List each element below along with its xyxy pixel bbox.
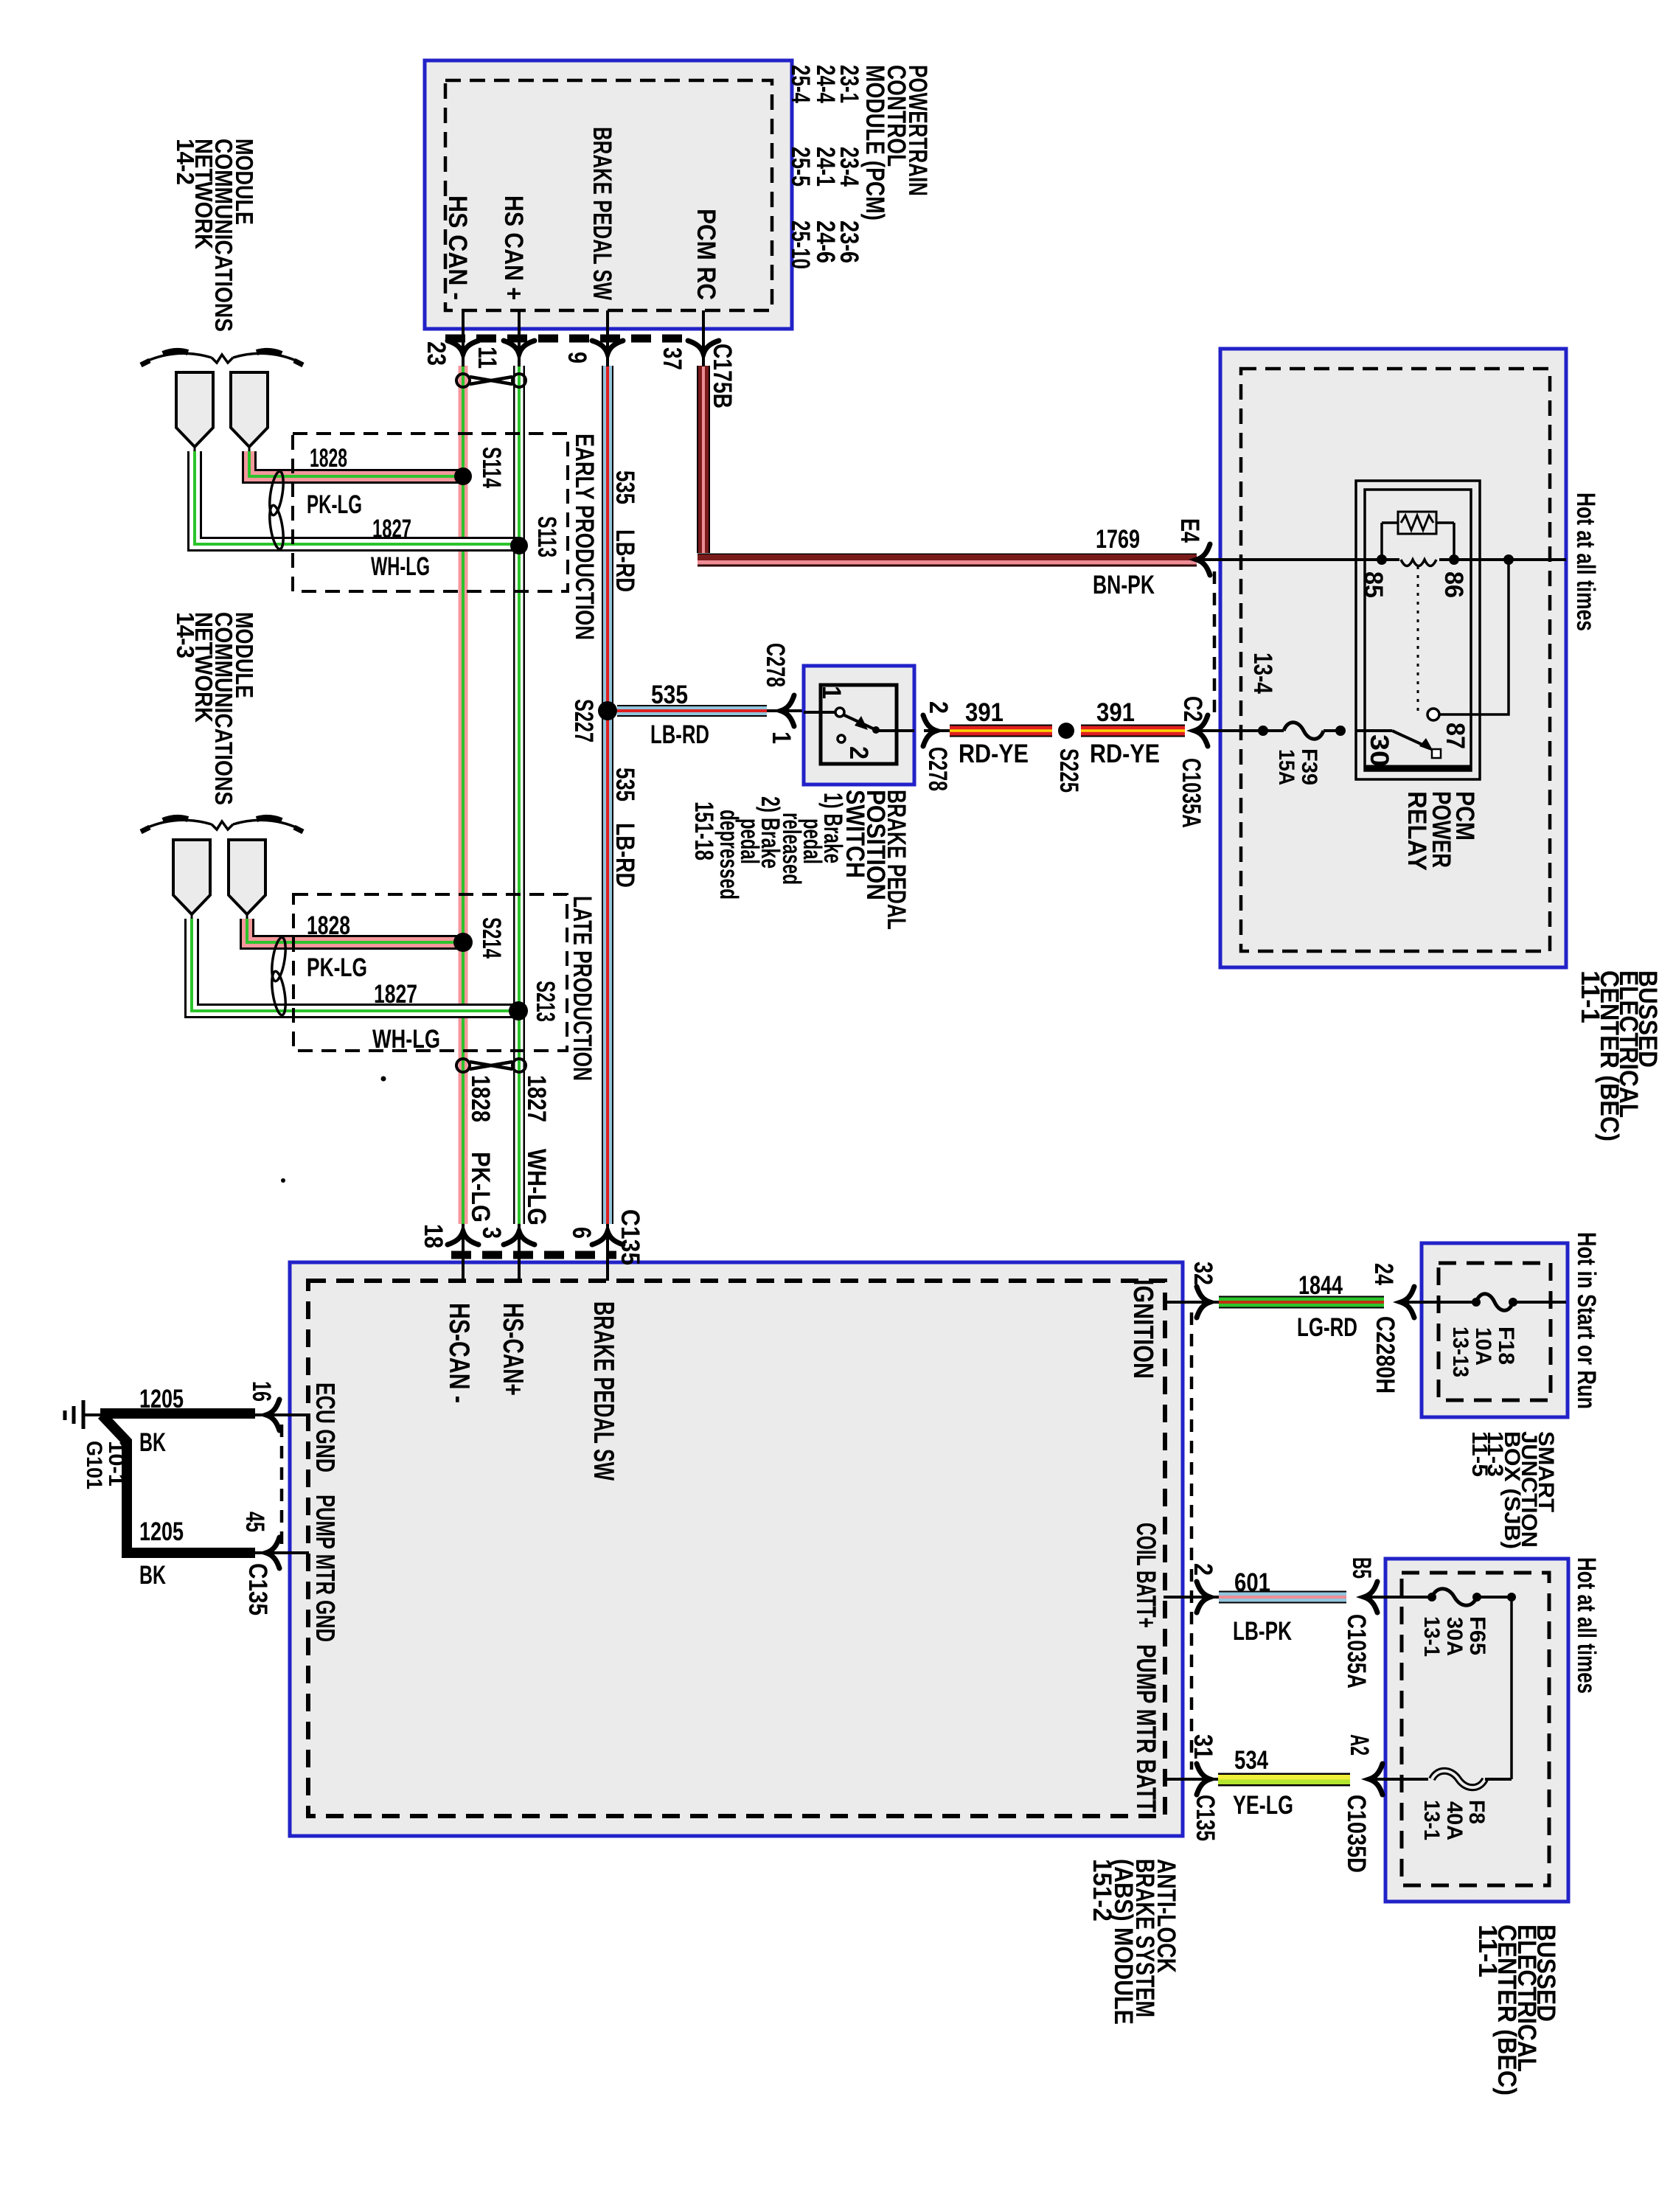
wire 535 LB-RD branch to switch bbox=[617, 681, 767, 749]
wire label 1769 BN-PK bbox=[1093, 525, 1155, 599]
labels S114 S113 EARLY PRODUCTION bbox=[477, 434, 599, 640]
label 13-4 bbox=[1248, 653, 1277, 694]
svg-text:F65: F65 bbox=[1465, 1616, 1489, 1655]
ABS pin 31 (PUMP MTR BATT) bbox=[1164, 1734, 1220, 1841]
svg-text:30A: 30A bbox=[1442, 1617, 1467, 1656]
connector C2280H arrow bbox=[1369, 1263, 1476, 1394]
svg-text:86: 86 bbox=[1439, 571, 1468, 598]
svg-text:F39: F39 bbox=[1297, 748, 1321, 785]
svg-text:Hot at all times: Hot at all times bbox=[1571, 493, 1600, 631]
svg-text:COIL BATT+: COIL BATT+ bbox=[1131, 1523, 1161, 1628]
module connector symbol (early, left) bbox=[176, 372, 213, 453]
svg-text:15A: 15A bbox=[1274, 749, 1298, 785]
wire labels 1827 WH-LG (early) bbox=[371, 515, 430, 581]
wire 391 RD-YE segment A bbox=[950, 698, 1052, 768]
svg-text:2: 2 bbox=[844, 746, 873, 759]
svg-text:PK-LG: PK-LG bbox=[307, 490, 362, 519]
svg-text:37: 37 bbox=[658, 347, 686, 370]
SJB box bbox=[1422, 1243, 1568, 1417]
twisted pair symbol (late) bbox=[269, 936, 288, 1016]
svg-text:WH-LG: WH-LG bbox=[372, 1025, 440, 1054]
connector B5 arrow bbox=[1342, 1557, 1432, 1688]
svg-text:S227: S227 bbox=[569, 699, 598, 742]
ABS pin 32 (IGNITION) bbox=[1127, 1262, 1219, 1379]
wire 1769 BN-PK vertical from PCM pin 37 bbox=[697, 366, 710, 553]
svg-text:RELAY: RELAY bbox=[1402, 791, 1431, 871]
svg-text:Hot at all times: Hot at all times bbox=[1572, 1557, 1601, 1694]
ABS right pins connector dashed link bbox=[1190, 1312, 1194, 1770]
svg-text:S213: S213 bbox=[531, 981, 560, 1022]
twisted pair symbol (early) bbox=[267, 470, 285, 550]
svg-text:BK: BK bbox=[139, 1561, 166, 1590]
stray mark 1 bbox=[381, 1077, 386, 1082]
fuse F18 10A bbox=[1448, 1294, 1566, 1377]
wire 1205 BK to pin 16 bbox=[100, 1385, 255, 1457]
wire labels 1827 WH-LG (late) bbox=[372, 980, 440, 1054]
label BUSSED ELECTRICAL CENTER (BEC) 11-1 (bottom) bbox=[1473, 1924, 1560, 2096]
svg-text:F18: F18 bbox=[1494, 1326, 1518, 1365]
wire 1827 WH-LG horizontal (late) to S213 bbox=[192, 919, 518, 1011]
svg-text:45: 45 bbox=[240, 1512, 269, 1532]
svg-text:11-1: 11-1 bbox=[1473, 1924, 1502, 1978]
svg-text:C135: C135 bbox=[1191, 1795, 1220, 1841]
bus arcs symbol (network 14-3) bbox=[141, 818, 303, 832]
label Hot at all times (bottom) bbox=[1572, 1557, 1601, 1694]
ABS pin 16 bbox=[247, 1381, 309, 1430]
svg-text:F8: F8 bbox=[1464, 1800, 1489, 1824]
BEC (bottom) box bbox=[1385, 1559, 1568, 1902]
label MODULE COMMUNICATIONS NETWORK 14-2 bbox=[172, 139, 258, 332]
svg-text:WH-LG: WH-LG bbox=[371, 552, 430, 581]
relay armature dotted link bbox=[1417, 566, 1419, 712]
svg-text:C1035A: C1035A bbox=[1177, 758, 1206, 828]
wire labels 1828 PK-LG / 1827 WH-LG (to ABS) bbox=[466, 1075, 551, 1225]
wire 1827 WH-LG vertical (HS CAN +) bbox=[513, 366, 525, 1224]
wire 1828 PK-LG horizontal (early) to S114 bbox=[249, 451, 463, 476]
svg-text:87: 87 bbox=[1441, 723, 1470, 749]
connector C2 arrow bbox=[1177, 696, 1263, 828]
label BUSSED ELECTRICAL CENTER (BEC) 11-1 (top) bbox=[1576, 970, 1659, 1141]
svg-text:C1035D: C1035D bbox=[1342, 1795, 1371, 1873]
svg-text:LB-RD: LB-RD bbox=[611, 823, 639, 888]
svg-text:B5: B5 bbox=[1347, 1557, 1376, 1579]
ABS internal labels ECU GND / PUMP MTR GND bbox=[310, 1382, 341, 1642]
ground G101 symbol bbox=[65, 1400, 128, 1489]
svg-text:C175B: C175B bbox=[708, 344, 737, 408]
svg-text:1827: 1827 bbox=[374, 980, 417, 1009]
hot at all times feed wire bbox=[1220, 558, 1566, 561]
svg-text:E4: E4 bbox=[1175, 518, 1204, 543]
PCM pin 23 bbox=[422, 310, 479, 366]
PCM pin 9 bbox=[563, 310, 623, 366]
svg-text:1828: 1828 bbox=[466, 1075, 495, 1122]
svg-text:13-1: 13-1 bbox=[1419, 1800, 1444, 1840]
svg-text:25-10: 25-10 bbox=[786, 220, 815, 269]
wire 1828 PK-LG vertical (HS CAN -) bbox=[459, 366, 468, 1224]
ABS pin 3 bbox=[477, 1224, 535, 1281]
dashed box LATE PRODUCTION bbox=[293, 894, 567, 1051]
splice S227 bbox=[569, 699, 617, 742]
svg-text:1844: 1844 bbox=[1298, 1271, 1343, 1300]
svg-text:C278: C278 bbox=[923, 747, 952, 791]
svg-text:HS-CAN -: HS-CAN - bbox=[443, 1303, 475, 1403]
svg-text:14-2: 14-2 bbox=[172, 139, 199, 185]
svg-text:S113: S113 bbox=[532, 516, 561, 557]
svg-text:PK-LG: PK-LG bbox=[466, 1152, 495, 1222]
svg-text:11-5: 11-5 bbox=[1467, 1431, 1492, 1477]
svg-text:C1035A: C1035A bbox=[1342, 1614, 1371, 1688]
ABS pin 45 bbox=[240, 1512, 309, 1615]
svg-text:LB-RD: LB-RD bbox=[611, 529, 639, 592]
svg-text:85: 85 bbox=[1359, 571, 1388, 598]
svg-text:IGNITION: IGNITION bbox=[1127, 1279, 1158, 1379]
svg-text:601: 601 bbox=[1234, 1568, 1270, 1597]
wire 535 LB-RD vertical (BRAKE PEDAL SW) bbox=[602, 366, 613, 1224]
splice S114 bbox=[454, 467, 472, 485]
svg-text:25-5: 25-5 bbox=[786, 147, 815, 187]
svg-text:PK-LG: PK-LG bbox=[307, 953, 367, 982]
svg-text:2: 2 bbox=[1189, 1563, 1217, 1576]
svg-text:HS-CAN+: HS-CAN+ bbox=[497, 1303, 529, 1396]
wire 601 LB-PK bbox=[1219, 1568, 1346, 1646]
C278 pin 1 arrow bbox=[761, 643, 804, 744]
svg-text:18: 18 bbox=[419, 1224, 448, 1248]
svg-text:535: 535 bbox=[611, 768, 639, 801]
module connector symbol (early, right) bbox=[231, 372, 268, 453]
C278 pin 2 arrow bbox=[923, 701, 953, 791]
svg-text:1827: 1827 bbox=[522, 1075, 551, 1122]
svg-text:RD-YE: RD-YE bbox=[959, 740, 1029, 768]
svg-text:535: 535 bbox=[611, 470, 639, 504]
module connector symbol (late, left) bbox=[173, 840, 210, 920]
wire 1827 WH-LG horizontal (early) to S113 bbox=[195, 451, 519, 544]
svg-text:11-1: 11-1 bbox=[1576, 970, 1604, 1023]
svg-text:2: 2 bbox=[924, 701, 953, 714]
svg-text:1828: 1828 bbox=[310, 444, 347, 473]
svg-text:A2: A2 bbox=[1345, 1734, 1374, 1756]
ABS pin 6 bbox=[567, 1209, 644, 1281]
PCM internal pin labels bbox=[443, 127, 720, 300]
svg-text:9: 9 bbox=[563, 352, 591, 364]
switch description labels bbox=[689, 790, 911, 930]
PCM pin location grid bbox=[786, 65, 863, 269]
ABS internal pin labels (top) bbox=[443, 1301, 619, 1481]
twisted pair link above ABS pins bbox=[456, 1059, 526, 1072]
splice S113 bbox=[510, 537, 528, 554]
svg-text:1827: 1827 bbox=[372, 515, 411, 543]
svg-text:14-3: 14-3 bbox=[172, 612, 199, 658]
svg-text:BK: BK bbox=[139, 1428, 166, 1457]
wire 534 YE-LG bbox=[1218, 1746, 1350, 1820]
svg-text:391: 391 bbox=[965, 698, 1004, 727]
relay coil bbox=[1377, 554, 1459, 566]
PCM pin 37 bbox=[658, 310, 737, 408]
svg-text:11: 11 bbox=[473, 347, 501, 369]
BEC bottom bus line bbox=[1507, 1593, 1516, 1779]
svg-text:10A: 10A bbox=[1471, 1327, 1495, 1366]
wire labels 1828 PK-LG (late) bbox=[307, 911, 367, 982]
labels S214 S213 LATE PRODUCTION bbox=[477, 896, 597, 1081]
label POWERTRAIN CONTROL MODULE (PCM) bbox=[860, 65, 932, 220]
wire 1769 BN-PK horizontal to E4 bbox=[698, 554, 1197, 567]
svg-text:EARLY PRODUCTION: EARLY PRODUCTION bbox=[570, 434, 599, 640]
svg-text:C278: C278 bbox=[761, 643, 790, 687]
wire 1844 LG-RD bbox=[1219, 1271, 1384, 1342]
svg-text:C135: C135 bbox=[616, 1209, 644, 1265]
svg-text:1205: 1205 bbox=[139, 1385, 184, 1413]
PCM module box bbox=[425, 60, 792, 329]
svg-text:151-18: 151-18 bbox=[689, 801, 718, 860]
ABS pin 18 bbox=[419, 1224, 479, 1281]
svg-text:LG-RD: LG-RD bbox=[1297, 1313, 1357, 1342]
svg-text:LB-PK: LB-PK bbox=[1233, 1617, 1292, 1646]
svg-text:1: 1 bbox=[817, 686, 846, 699]
svg-text:LATE PRODUCTION: LATE PRODUCTION bbox=[568, 896, 597, 1081]
svg-text:3: 3 bbox=[477, 1227, 506, 1239]
svg-text:31: 31 bbox=[1189, 1734, 1217, 1759]
connector E4 arrow bbox=[1175, 518, 1220, 575]
PCM pin 11 bbox=[473, 310, 535, 369]
svg-text:30: 30 bbox=[1365, 734, 1394, 767]
svg-text:Hot in Start or Run: Hot in Start or Run bbox=[1572, 1232, 1601, 1409]
svg-text:1205: 1205 bbox=[139, 1517, 184, 1546]
svg-text:PUMP MTR BATT: PUMP MTR BATT bbox=[1131, 1644, 1161, 1812]
PCM connector C175B dashed line bbox=[445, 335, 692, 343]
module connector symbol (late, right) bbox=[229, 840, 265, 920]
svg-text:S114: S114 bbox=[477, 447, 506, 488]
svg-text:1828: 1828 bbox=[307, 911, 350, 940]
svg-text:1769: 1769 bbox=[1096, 525, 1140, 554]
svg-text:PCM RC: PCM RC bbox=[692, 209, 720, 300]
svg-text:PUMP MTR GND: PUMP MTR GND bbox=[310, 1495, 341, 1642]
fuse F65 30A bbox=[1419, 1589, 1512, 1657]
svg-text:151-2: 151-2 bbox=[1088, 1859, 1116, 1921]
splice S214 bbox=[453, 933, 473, 952]
svg-text:HS CAN -: HS CAN - bbox=[443, 195, 472, 300]
label Hot at all times (top) bbox=[1571, 493, 1600, 631]
switch internals bbox=[804, 686, 914, 759]
ABS pin 2 (COIL BATT+) bbox=[1164, 1563, 1219, 1613]
svg-text:WH-LG: WH-LG bbox=[522, 1149, 551, 1225]
E4-C2 connector dashed link bbox=[1213, 571, 1217, 721]
label MODULE COMMUNICATIONS NETWORK 14-3 bbox=[172, 612, 258, 805]
svg-text:C135: C135 bbox=[243, 1563, 272, 1615]
svg-text:G101: G101 bbox=[82, 1441, 106, 1489]
svg-text:25-4: 25-4 bbox=[786, 65, 815, 103]
ABS connector C135 dashed line (top) bbox=[451, 1251, 616, 1259]
svg-text:13-1: 13-1 bbox=[1419, 1616, 1444, 1657]
ABS left pins connector dashed link bbox=[280, 1425, 284, 1545]
wire label 535 LB-RD (lower) bbox=[611, 768, 639, 888]
svg-text:C2280H: C2280H bbox=[1371, 1316, 1399, 1394]
svg-text:ECU GND: ECU GND bbox=[310, 1382, 341, 1472]
wire 391 RD-YE segment B bbox=[1081, 698, 1185, 768]
wire 1828 PK-LG horizontal (late) to S214 bbox=[247, 919, 463, 942]
svg-text:S225: S225 bbox=[1054, 748, 1083, 793]
svg-text:HS CAN +: HS CAN + bbox=[499, 195, 528, 300]
svg-text:BRAKE PEDAL SW: BRAKE PEDAL SW bbox=[588, 127, 616, 300]
svg-text:13-13: 13-13 bbox=[1448, 1326, 1472, 1377]
wire label 535 LB-RD (upper) bbox=[611, 470, 639, 592]
ABS internal labels IGNITION COIL BATT+ PUMP MTR BATT bbox=[1131, 1523, 1161, 1812]
label Hot in Start or Run bbox=[1572, 1232, 1601, 1409]
relay label PCM POWER RELAY bbox=[1402, 791, 1479, 871]
svg-text:16: 16 bbox=[247, 1381, 276, 1402]
svg-text:LB-RD: LB-RD bbox=[650, 720, 709, 749]
svg-text:23: 23 bbox=[422, 341, 451, 366]
svg-text:391: 391 bbox=[1096, 698, 1135, 727]
PCM power relay box bbox=[1356, 481, 1480, 779]
svg-text:RD-YE: RD-YE bbox=[1090, 740, 1160, 768]
stray mark 2 bbox=[281, 1178, 285, 1183]
bus arcs symbol (network 14-2) bbox=[141, 351, 303, 365]
label SMART JUNCTION BOX (SJB) 11-3 11-5 bbox=[1467, 1431, 1558, 1549]
relay pin 30 and blade bbox=[1335, 726, 1441, 767]
label ANTI-LOCK BRAKE SYSTEM (ABS) MODULE 151-2 bbox=[1088, 1859, 1180, 2025]
relay resistor bbox=[1382, 512, 1454, 560]
twisted pair link below PCM pins bbox=[456, 374, 526, 387]
BEC (top) box bbox=[1220, 349, 1566, 967]
svg-text:BRAKE PEDAL SW: BRAKE PEDAL SW bbox=[588, 1301, 619, 1481]
svg-text:YE-LG: YE-LG bbox=[1233, 1791, 1293, 1820]
svg-text:32: 32 bbox=[1189, 1262, 1217, 1285]
wire 1205 BK to pin 45 bbox=[102, 1415, 255, 1590]
splice S213 bbox=[509, 1001, 528, 1020]
relay pin 87 bbox=[1427, 554, 1514, 749]
svg-text:40A: 40A bbox=[1442, 1801, 1467, 1840]
svg-text:C2: C2 bbox=[1178, 696, 1207, 722]
svg-text:13-4: 13-4 bbox=[1248, 653, 1277, 694]
svg-text:535: 535 bbox=[651, 681, 688, 709]
fuse F39 15A bbox=[1258, 723, 1340, 785]
svg-text:S214: S214 bbox=[477, 917, 506, 959]
svg-text:6: 6 bbox=[567, 1227, 596, 1239]
relay pin labels 85 86 bbox=[1359, 571, 1468, 598]
svg-text:1: 1 bbox=[767, 731, 796, 744]
splice S225 bbox=[1054, 723, 1083, 793]
connector A2 arrow bbox=[1342, 1734, 1428, 1873]
ABS module box bbox=[290, 1262, 1183, 1836]
fuse F8 40A bbox=[1419, 1771, 1512, 1840]
svg-text:24: 24 bbox=[1369, 1263, 1398, 1285]
brake pedal position switch box bbox=[804, 666, 914, 785]
wire labels 1828 PK-LG (early) bbox=[307, 444, 362, 519]
svg-text:534: 534 bbox=[1234, 1746, 1268, 1775]
svg-text:BN-PK: BN-PK bbox=[1093, 571, 1155, 599]
svg-text:MODULE (PCM): MODULE (PCM) bbox=[860, 65, 889, 220]
dashed box EARLY PRODUCTION bbox=[293, 434, 568, 591]
